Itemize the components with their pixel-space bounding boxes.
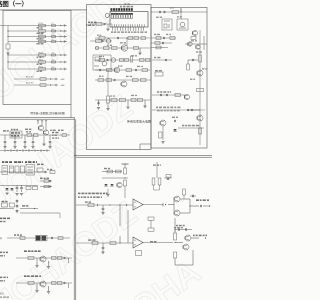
resistor R63 <box>52 282 57 285</box>
svg-text:C6: C6 <box>52 59 54 61</box>
node box-A frame <box>3 10 71 104</box>
wire <box>180 198 190 200</box>
resistor R27 <box>133 79 139 82</box>
relay U1 <box>93 55 111 70</box>
ground <box>106 28 109 30</box>
capacitor C14 <box>135 69 137 71</box>
wire <box>95 59 150 61</box>
capacitor C44 <box>167 178 169 180</box>
wire <box>162 203 164 207</box>
resistor R71 <box>88 204 94 207</box>
capacitor C11 <box>117 37 119 39</box>
wire <box>8 61 66 63</box>
transistor Q6 <box>196 45 200 49</box>
capacitor C33 <box>44 171 46 173</box>
wire <box>0 9 87 10</box>
svg-text:→AU: →AU <box>60 84 65 87</box>
capacitor C38 <box>16 200 18 201</box>
diode D5 <box>61 54 62 56</box>
node P1 indicator <box>105 14 109 18</box>
wire <box>126 38 128 46</box>
resistor R41 <box>187 64 190 70</box>
svg-text:伴音功率放大电路: 伴音功率放大电路 <box>127 119 151 124</box>
diode D7 <box>61 68 62 70</box>
capacitor C34 <box>16 185 18 187</box>
diode D4 <box>61 41 62 43</box>
svg-text:(伴音输入监视窗口信息输出电路): (伴音输入监视窗口信息输出电路) <box>30 111 65 115</box>
resistor R78 <box>173 252 176 258</box>
relay U6 <box>2 166 8 175</box>
node input label <box>0 277 2 279</box>
node test points <box>4 149 6 152</box>
diode D9 <box>50 84 51 86</box>
transistor Q19 <box>183 244 189 250</box>
capacitor C20 <box>162 42 164 44</box>
transistor Q1 <box>121 45 127 51</box>
node U2 inner row <box>111 24 113 27</box>
node labels <box>40 178 43 179</box>
capacitor C25 <box>166 94 168 96</box>
resistor R51 <box>37 168 43 172</box>
wire <box>144 100 146 106</box>
capacitor C41 <box>51 237 53 239</box>
transistor Q10 <box>160 120 166 126</box>
resistor R36 <box>156 46 161 49</box>
resistor R66 <box>166 175 171 178</box>
resistor R7 <box>39 68 46 70</box>
capacitor C3 <box>52 36 56 38</box>
op-amp U9 <box>133 199 143 210</box>
capacitor C19 <box>163 37 165 39</box>
capacitor C35 <box>21 185 23 187</box>
node U2 label <box>125 3 127 5</box>
resistor R70 <box>116 170 122 173</box>
wire <box>0 171 46 173</box>
wire <box>76 204 133 206</box>
wire <box>95 99 151 101</box>
node J2 <box>95 46 99 50</box>
wire <box>55 78 57 80</box>
resistor R32 <box>172 11 179 14</box>
diode D10 <box>173 129 177 131</box>
svg-text:C4: C4 <box>52 39 54 41</box>
node label <box>24 275 26 277</box>
wire <box>36 258 38 265</box>
capacitor C23 <box>165 59 167 61</box>
resistor R60 <box>28 257 34 260</box>
node label <box>156 107 158 109</box>
wire <box>191 237 199 239</box>
wire <box>90 40 112 42</box>
wire <box>48 261 50 266</box>
resistor R34 <box>170 37 175 40</box>
svg-text:→AU: →AU <box>60 78 65 81</box>
wire <box>7 55 9 69</box>
wire <box>63 35 65 37</box>
wire <box>174 218 176 232</box>
ground <box>42 143 45 145</box>
resistor R15 <box>104 47 110 50</box>
svg-text:C5: C5 <box>52 52 54 54</box>
node label <box>157 91 159 93</box>
capacitor C27 <box>174 120 176 122</box>
capacitor C7 <box>52 68 56 70</box>
resistor R58 <box>20 237 25 240</box>
wire <box>63 30 65 32</box>
capacitor C13 <box>99 69 101 71</box>
wire <box>48 286 50 291</box>
wire <box>143 242 173 244</box>
resistor R73 <box>148 217 154 220</box>
node output label <box>193 235 195 237</box>
node label <box>154 57 156 59</box>
resistor R55 <box>44 185 49 188</box>
resistor R75 <box>110 242 116 245</box>
diode D11 <box>5 188 8 190</box>
ground <box>35 265 38 267</box>
node label <box>153 164 156 166</box>
diode D12 <box>10 188 13 190</box>
wire <box>151 37 176 39</box>
wire <box>74 155 212 157</box>
wire <box>109 204 110 205</box>
node labels <box>0 218 2 220</box>
wire <box>107 24 109 29</box>
resistor R45 <box>27 134 32 137</box>
transistor Q11 <box>38 125 43 130</box>
resistor R31 <box>131 98 136 101</box>
resistor R29 <box>111 98 117 101</box>
resistor R17 <box>134 47 139 50</box>
wire <box>20 208 38 210</box>
wire <box>151 47 168 49</box>
wire <box>40 180 52 182</box>
capacitor C21 <box>192 59 194 61</box>
resistor R35 <box>155 42 160 45</box>
diode D13 <box>104 184 107 186</box>
op-amp U2 body <box>110 12 148 28</box>
wire <box>20 212 60 214</box>
wire <box>178 127 204 129</box>
resistor R33 <box>156 37 161 40</box>
resistor R52 <box>50 171 55 174</box>
wire <box>16 282 72 284</box>
capacitor C49 <box>102 243 104 247</box>
wire <box>59 213 61 218</box>
wire <box>199 30 201 145</box>
resistor R72 <box>183 189 186 195</box>
node U2 bottom pins <box>112 27 114 31</box>
node U2 pin cells <box>111 13 113 18</box>
resistor R39 <box>197 89 204 92</box>
capacitor C6 <box>52 61 56 63</box>
ground <box>161 141 164 143</box>
node labels <box>3 130 6 131</box>
wire <box>16 257 72 259</box>
ground <box>138 52 141 54</box>
wire <box>14 78 58 80</box>
node label <box>150 241 153 243</box>
capacitor C4 <box>52 41 56 43</box>
capacitor C30 <box>24 135 26 141</box>
capacitor C29 <box>14 135 16 141</box>
wire <box>156 162 158 178</box>
node J1 <box>106 39 110 43</box>
resistor R56 <box>2 203 8 207</box>
svg-text:R6 1k: R6 1k <box>39 59 44 61</box>
wire <box>0 134 70 136</box>
wire <box>68 283 70 288</box>
wire <box>124 186 126 198</box>
resistor R1 <box>39 24 46 26</box>
capacitor C8 <box>6 44 10 49</box>
wire <box>45 121 47 130</box>
ground <box>15 193 18 195</box>
ground <box>31 146 34 148</box>
node J3 <box>111 58 115 62</box>
capacitor C39 <box>16 205 18 206</box>
wire <box>102 171 122 173</box>
wire <box>0 117 75 119</box>
wire <box>139 48 141 53</box>
resistor R76 <box>136 251 142 256</box>
ground <box>101 251 104 253</box>
svg-text:C2: C2 <box>52 28 54 30</box>
wire <box>152 94 186 96</box>
svg-text:R4 1k: R4 1k <box>39 39 44 41</box>
svg-text:8-2: 8-2 <box>0 292 4 296</box>
node label <box>24 250 27 252</box>
wire <box>68 258 70 263</box>
resistor R11 <box>96 40 102 43</box>
resistor R3 <box>39 35 46 37</box>
transistor Q14 <box>40 281 46 287</box>
svg-text:AUD R8: AUD R8 <box>26 75 34 78</box>
resistor R2 <box>39 30 46 32</box>
resistor R21 <box>140 59 145 62</box>
wire <box>70 105 72 118</box>
ground <box>35 290 38 292</box>
node labels <box>78 193 80 195</box>
capacitor C18 <box>163 11 165 13</box>
resistor R61 <box>52 257 57 260</box>
transistor Q2 <box>114 67 120 73</box>
wire <box>153 185 155 190</box>
node output label <box>196 199 199 201</box>
node label <box>14 234 16 235</box>
wire <box>8 41 66 43</box>
ground <box>106 194 109 196</box>
resistor R30 <box>120 98 126 101</box>
transistor Q8 <box>197 115 203 121</box>
wire <box>14 84 58 86</box>
wire <box>162 126 164 140</box>
wire <box>7 26 9 42</box>
node value labels C <box>154 34 156 35</box>
wire <box>0 0 212 300</box>
wire <box>185 43 207 45</box>
node value labels B <box>97 35 99 36</box>
resistor R46 <box>34 134 39 137</box>
capacitor C24 <box>160 94 162 96</box>
wire <box>107 189 109 194</box>
svg-text:R5 1k: R5 1k <box>39 52 44 54</box>
capacitor C17 <box>159 11 161 13</box>
wire <box>190 205 199 207</box>
resistor R64 <box>152 178 155 185</box>
wire <box>0 208 14 210</box>
resistor R49 <box>15 166 19 173</box>
relay U3 <box>162 19 172 30</box>
relay U7 <box>26 165 35 176</box>
ground <box>101 212 104 214</box>
wire <box>37 121 39 124</box>
svg-text:R3 1k: R3 1k <box>39 34 44 36</box>
resistor R47 <box>62 134 67 137</box>
node labels <box>52 132 54 133</box>
wire <box>180 8 182 12</box>
wire <box>41 121 43 126</box>
wire <box>180 8 182 19</box>
wire <box>8 54 66 56</box>
svg-text:C7: C7 <box>52 66 54 68</box>
wire <box>73 118 75 300</box>
capacitor C40 <box>16 210 18 211</box>
resistor R10 <box>96 23 102 26</box>
resistor R59 <box>58 237 63 240</box>
wire <box>43 136 45 144</box>
diode D2 <box>61 30 62 32</box>
wire <box>75 119 77 300</box>
transistor Q16 <box>174 196 180 202</box>
wire <box>0 118 75 120</box>
wire <box>36 283 38 290</box>
capacitor C26 <box>187 109 189 111</box>
capacitor C47 <box>200 205 202 207</box>
capacitor C36 <box>49 180 51 182</box>
capacitor C32 <box>49 135 51 141</box>
resistor R6 <box>39 61 46 63</box>
wire <box>107 103 109 108</box>
node labels <box>25 129 28 130</box>
ground <box>47 266 50 268</box>
wire <box>0 150 50 152</box>
capacitor C12 <box>106 59 108 61</box>
diode D8 <box>50 78 51 80</box>
resistor R16 <box>112 47 118 50</box>
capacitor C16 <box>97 102 99 104</box>
wire <box>0 0 208 300</box>
resistor R22 <box>107 69 113 72</box>
wire <box>95 37 150 39</box>
node box-B frame <box>87 5 152 150</box>
wire <box>55 84 57 86</box>
wire <box>7 42 9 45</box>
capacitor C15 <box>113 79 115 81</box>
wire <box>152 59 172 61</box>
wire <box>8 68 66 70</box>
node box-C frame <box>151 8 207 149</box>
svg-text:R2 1k: R2 1k <box>39 28 44 30</box>
resistor R67 <box>124 168 127 174</box>
capacitor C37 <box>49 185 51 187</box>
wire <box>95 79 151 81</box>
transistor Q18 <box>185 235 191 241</box>
node U2 bottom pin labels <box>111 31 113 33</box>
svg-text:C3: C3 <box>52 34 54 36</box>
transistor Q17 <box>174 210 180 216</box>
capacitor C42 <box>63 257 65 259</box>
resistor R68 <box>124 180 127 186</box>
transistor Q7 <box>197 70 203 76</box>
wire <box>95 47 150 49</box>
wire <box>8 36 66 38</box>
capacitor C1 <box>52 25 56 27</box>
ground <box>5 192 8 194</box>
resistor R77 <box>173 233 176 240</box>
capacitor C5 <box>52 54 56 56</box>
wire <box>151 42 172 44</box>
transistor Q15 <box>117 182 122 187</box>
ground <box>143 105 146 107</box>
wire <box>139 144 141 150</box>
resistor R65 <box>158 178 161 185</box>
capacitor C22 <box>191 109 193 111</box>
wire <box>174 258 176 265</box>
ground <box>97 107 100 109</box>
resistor R48 <box>10 166 14 173</box>
resistor R37 <box>191 37 196 40</box>
resistor R69 <box>107 170 113 173</box>
resistor R5 <box>39 54 46 56</box>
ground <box>106 108 109 110</box>
wire <box>98 100 100 106</box>
resistor R28 <box>141 79 147 82</box>
relay U5 <box>10 131 22 138</box>
node input label <box>0 252 2 254</box>
transistor Q4 <box>192 30 197 35</box>
resistor R57 <box>10 203 15 207</box>
resistor R42 <box>155 72 163 76</box>
capacitor C9 <box>103 23 105 25</box>
node label <box>22 205 25 206</box>
svg-text:R1 1k: R1 1k <box>39 23 44 25</box>
resistor R14 <box>128 37 133 40</box>
node label <box>174 227 176 228</box>
resistor R44 <box>159 132 163 138</box>
resistor R43 <box>175 94 181 97</box>
diode D3 <box>61 36 62 38</box>
wire <box>95 69 150 71</box>
node labels <box>2 161 4 163</box>
node label <box>157 110 160 112</box>
resistor R18 <box>99 59 105 62</box>
ground <box>47 291 50 293</box>
node +B rail <box>122 163 129 165</box>
ground <box>13 146 16 148</box>
resistor R13 <box>99 37 105 40</box>
wire <box>76 156 212 158</box>
transistor Q12 <box>43 130 48 135</box>
resistor R26 <box>106 79 112 82</box>
wire <box>150 220 152 228</box>
resistor R25 <box>98 79 104 82</box>
wire <box>203 36 205 50</box>
transistor Q5 <box>188 42 192 46</box>
capacitor C48 <box>178 228 180 231</box>
resistor R23 <box>126 69 132 72</box>
node label <box>182 125 184 127</box>
